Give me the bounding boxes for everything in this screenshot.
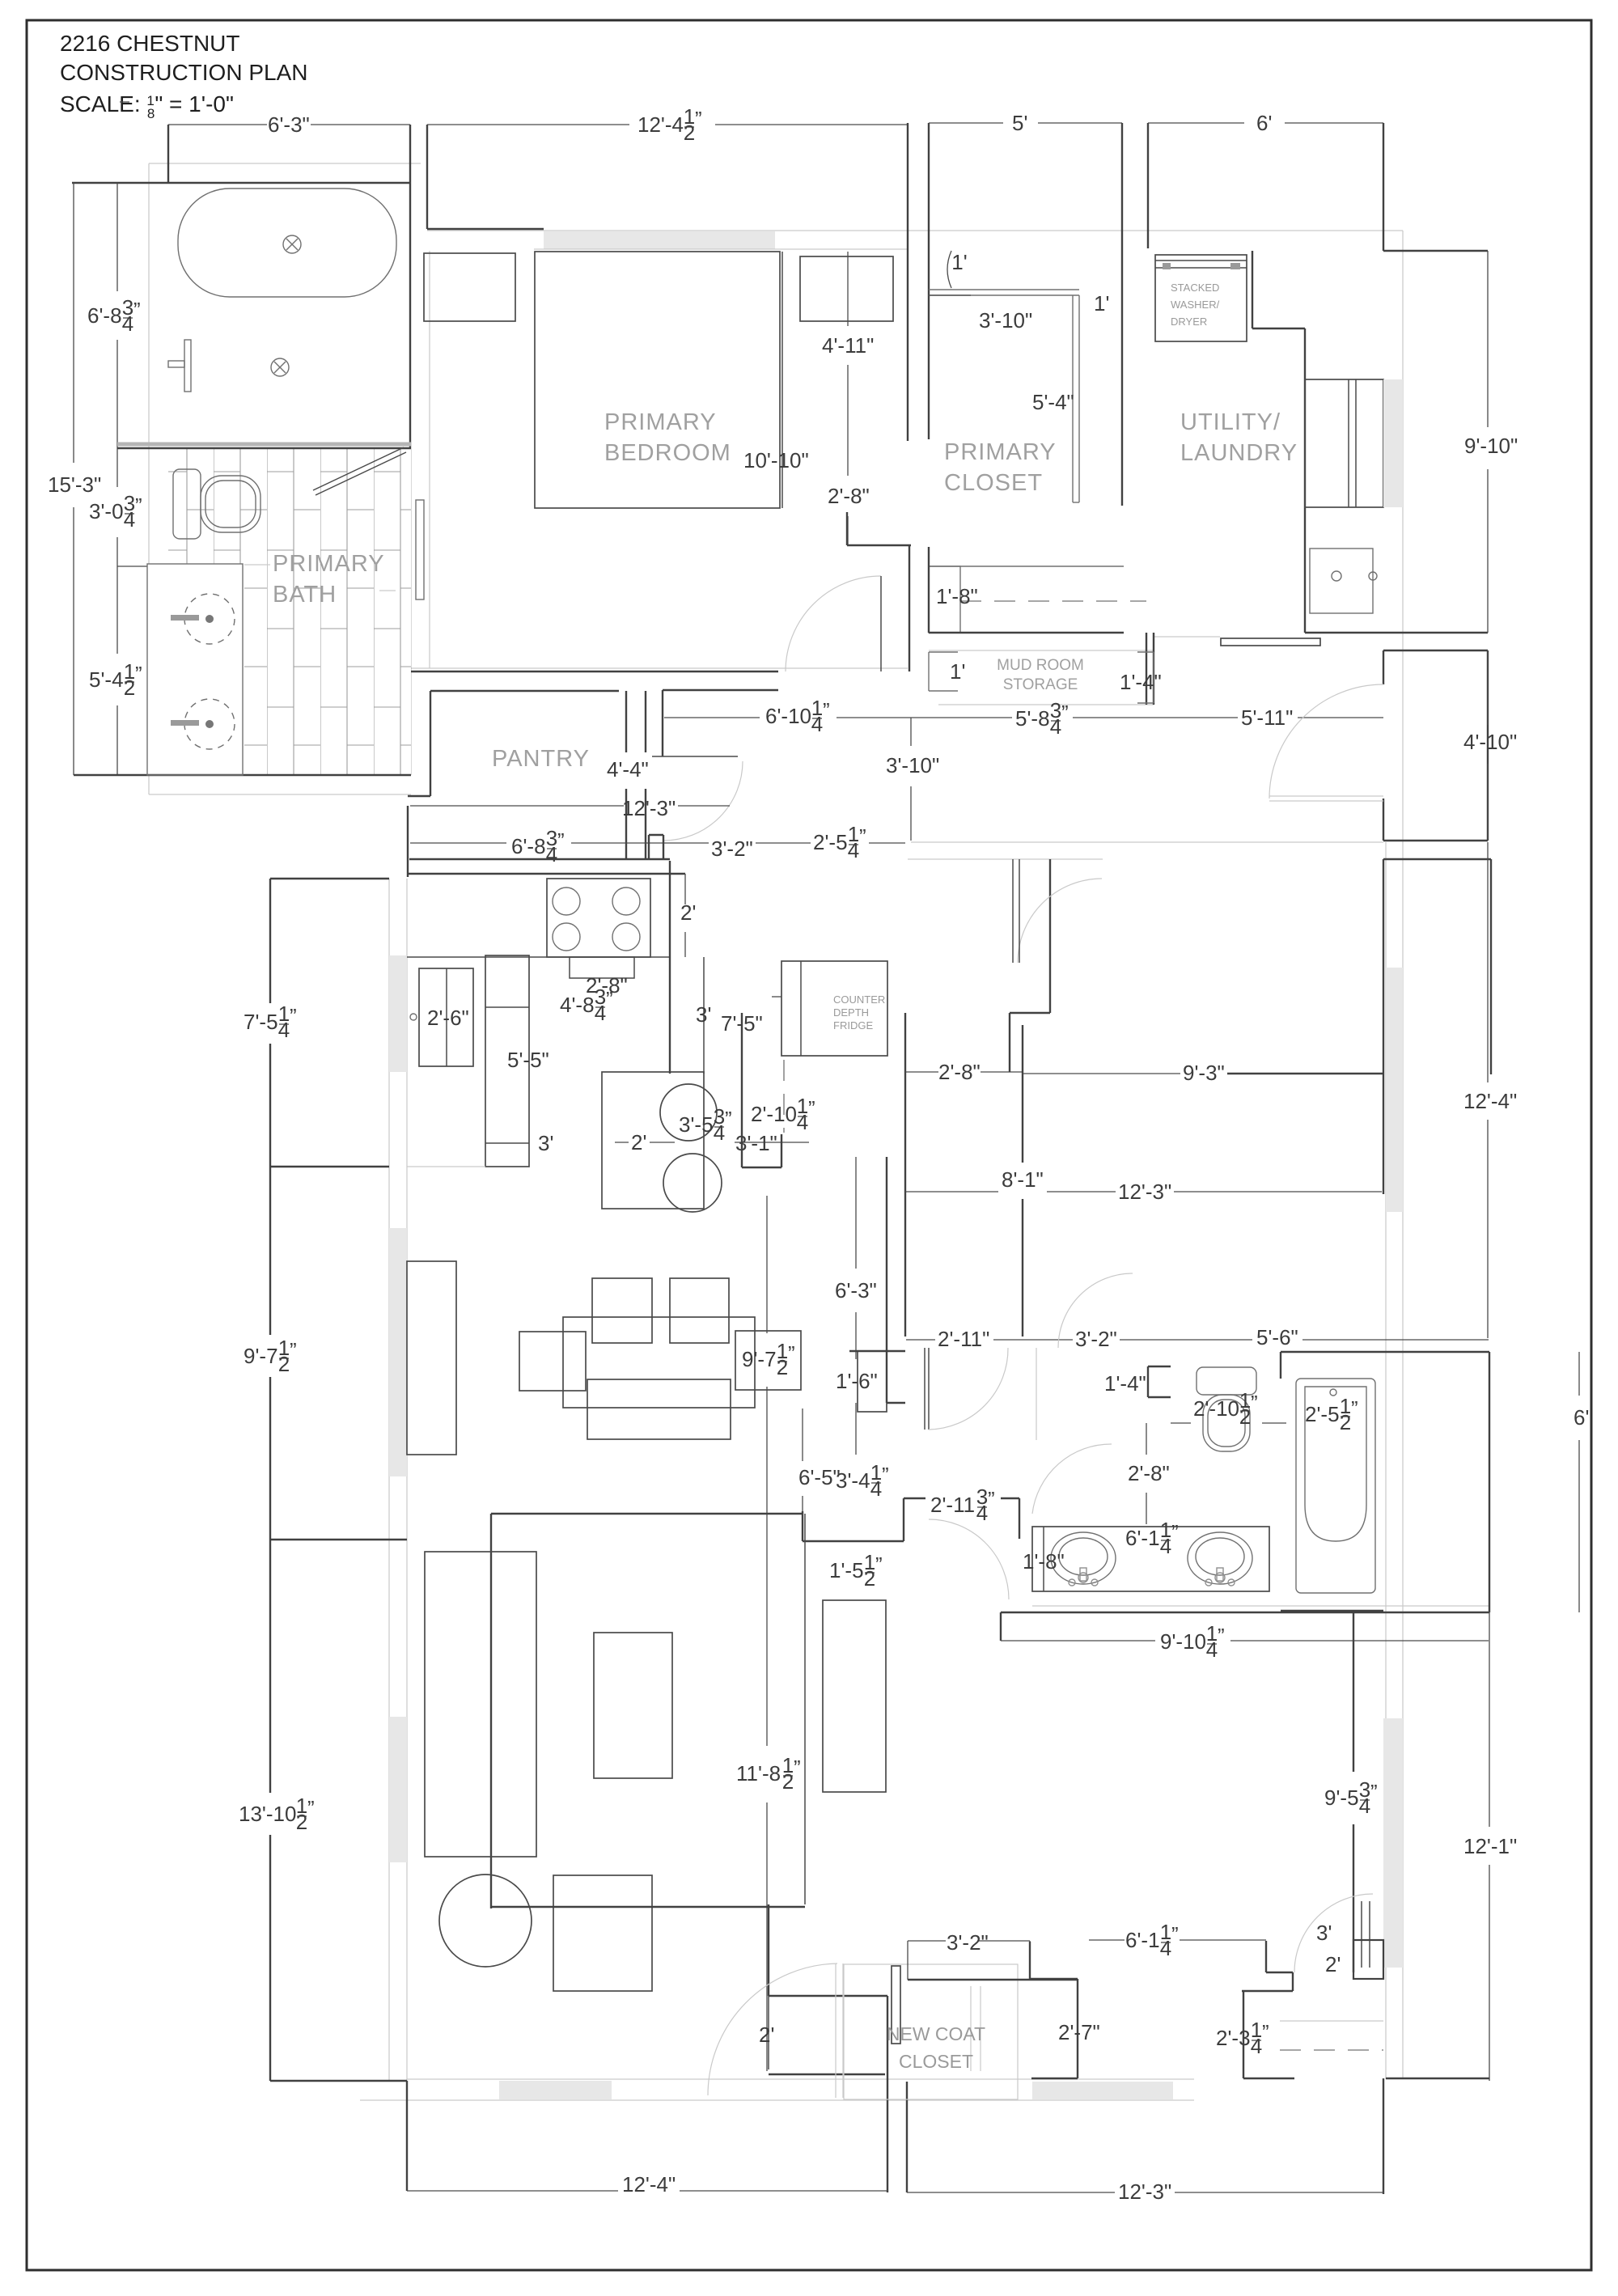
utility cabinet gray [1383, 379, 1403, 507]
wall entry closet w [887, 1996, 888, 2192]
dim 13-10 wall [269, 1540, 271, 1793]
wall bath south [74, 774, 411, 776]
dim line 4'-10 [1487, 650, 1489, 725]
svg-text:5'-5": 5'-5" [507, 1048, 549, 1072]
coat closet door leaf [892, 1966, 900, 2044]
fridge [781, 961, 887, 1056]
wall entry south [769, 1995, 887, 1997]
wall bed2 closet jamb [1265, 1941, 1267, 1972]
sofa side table right [735, 1331, 801, 1390]
wall stair north [1383, 250, 1488, 252]
wall den south jog [803, 1540, 904, 1542]
svg-text:1'-6": 1'-6" [836, 1369, 878, 1393]
wall bath2 east [1489, 1352, 1490, 1612]
bedroom door leaf [880, 576, 882, 671]
wall dining west [269, 879, 271, 1003]
wall den east [802, 1511, 803, 1541]
sink basin 1 dashed [184, 594, 235, 644]
svg-text:5'-8: 5'-8 [1015, 706, 1050, 731]
hall door jamb gray [1036, 1348, 1037, 1440]
wall bath west jog [167, 125, 169, 183]
svg-text:”: ” [1171, 1520, 1179, 1544]
hall door arc right [1032, 1444, 1112, 1514]
svg-text:”: ” [882, 1463, 889, 1487]
wall living west [269, 1167, 271, 1335]
bookcase lower left [425, 1552, 536, 1857]
wall den jamb [903, 1498, 904, 1541]
svg-text:2: 2 [278, 1352, 290, 1376]
svg-text:2': 2' [631, 1130, 646, 1154]
wall closet hall [909, 545, 910, 671]
toilet2 tank [1197, 1367, 1256, 1395]
wall bath2 west jog [1280, 1352, 1281, 1379]
sink2a [1051, 1532, 1116, 1584]
towel bar [184, 340, 191, 392]
svg-text:”: ” [606, 987, 613, 1011]
wall bedroom south-east [847, 544, 911, 546]
svg-text:9'-5: 9'-5 [1324, 1786, 1359, 1810]
hall door south arc [929, 1348, 1008, 1430]
svg-text:STORAGE: STORAGE [1003, 676, 1078, 693]
svg-text:15'-3": 15'-3" [48, 472, 101, 497]
svg-text:3'-5: 3'-5 [679, 1112, 714, 1137]
wall stair room [1383, 650, 1488, 651]
bookcase dining [407, 1261, 456, 1455]
svg-text:12'-4: 12'-4 [637, 112, 684, 137]
gray left window band 2 [389, 1228, 407, 1476]
wall kitchen pass east [904, 1013, 906, 1337]
svg-text:”: ” [725, 1107, 732, 1131]
svg-text:BEDROOM: BEDROOM [604, 440, 731, 466]
svg-text:3'-0: 3'-0 [89, 499, 124, 523]
wall bath2 sw tick [1000, 1612, 1002, 1641]
wall pantry east pair [625, 691, 627, 752]
svg-text:12'-4": 12'-4" [622, 2172, 676, 2196]
svg-text:2: 2 [777, 1355, 788, 1379]
dim 2'-6 ticks [772, 996, 781, 998]
svg-text:PRIMARY: PRIMARY [944, 439, 1057, 465]
wall bed2 closet west [1243, 1991, 1244, 2078]
entry interior door leaf [768, 1996, 769, 2069]
vanity bath2 [1032, 1527, 1269, 1591]
svg-text:”: ” [290, 1338, 297, 1362]
svg-text:1': 1' [950, 659, 965, 684]
gray right exterior wall lines [1385, 842, 1387, 2079]
gray existing wall band over bedroom window [544, 231, 775, 249]
svg-text:4'-11": 4'-11" [822, 333, 874, 358]
wall bedroom west [426, 125, 428, 229]
dim line 12'-3 bottom [907, 2192, 1115, 2193]
dim line 12'-4 bottom [407, 2190, 618, 2192]
svg-text:”: ” [135, 494, 142, 518]
wall bed2 closet area north [1281, 1610, 1383, 1612]
closet gray box [844, 1964, 1018, 2099]
wall bath2 south [1001, 1612, 1489, 1613]
toilet primary tank [173, 469, 201, 539]
pantry door arc [663, 761, 743, 841]
sink2b [1188, 1532, 1252, 1584]
dim line hall bottom [906, 1339, 935, 1341]
utility cabinet [1305, 379, 1383, 507]
svg-text:”: ” [290, 1004, 297, 1028]
wall bottom left vert [406, 2081, 408, 2191]
gray left window band 3 [389, 1717, 407, 1862]
door jamb kitchen pass [648, 835, 650, 859]
burner 2 [612, 887, 640, 915]
svg-text:PANTRY: PANTRY [492, 746, 590, 772]
svg-text:”: ” [823, 698, 830, 722]
svg-text:6'-10: 6'-10 [765, 704, 811, 728]
vanity divider [1043, 1527, 1044, 1591]
towel bar bedroom side [416, 500, 424, 599]
svg-text:6'-3": 6'-3" [268, 112, 310, 137]
utility sink [1310, 549, 1373, 613]
svg-text:6'-8: 6'-8 [87, 303, 122, 328]
sofa cushion 2 [670, 1278, 729, 1343]
svg-text:4'-10": 4'-10" [1463, 730, 1517, 754]
shower head symbol 2 [271, 358, 289, 376]
svg-text:”: ” [1171, 1922, 1179, 1947]
burner 1 [553, 887, 580, 915]
dim line 3'-10 vert [910, 718, 912, 746]
bar stool 1 [660, 1084, 717, 1141]
svg-text:”: ” [1251, 1391, 1258, 1415]
dim line 3'-10 closet [929, 294, 971, 296]
svg-text:”: ” [1061, 701, 1069, 725]
bath door leaf diagonal [313, 447, 404, 490]
gray bottom exterior wall lines [407, 2078, 1194, 2080]
bed2 closet door leaf [1361, 1901, 1362, 1968]
svg-text:CLOSET: CLOSET [899, 2051, 973, 2072]
closet rod dashed [960, 600, 1146, 602]
svg-text:3'-10": 3'-10" [886, 753, 939, 777]
gray right window band 1 [1386, 968, 1403, 1212]
wall utility east top [1383, 123, 1384, 251]
svg-text:CLOSET: CLOSET [944, 470, 1043, 496]
svg-text:3': 3' [1316, 1921, 1332, 1945]
svg-text:5': 5' [1012, 111, 1027, 135]
svg-text:12'-1": 12'-1" [1463, 1834, 1517, 1858]
wall rm north [1383, 858, 1491, 860]
svg-text:BATH: BATH [273, 582, 337, 608]
wall hall north jog [1010, 1012, 1050, 1014]
nightstand left [424, 253, 515, 321]
svg-text:2': 2' [680, 900, 696, 925]
dim line 2'-10 1/2 [1171, 1422, 1191, 1424]
wall dining south [270, 1166, 389, 1167]
svg-text:2'-8": 2'-8" [938, 1060, 981, 1084]
tub2 inner [1305, 1387, 1366, 1541]
svg-text:12'-3": 12'-3" [622, 796, 676, 820]
svg-text:4: 4 [124, 507, 135, 532]
wall bed2 west [886, 1157, 887, 1403]
bed [535, 252, 780, 508]
wall den divider [490, 1514, 492, 1908]
svg-text:3'-2": 3'-2" [711, 837, 753, 861]
wall bottom left [270, 2080, 407, 2082]
svg-text:2: 2 [124, 676, 135, 700]
wall bath mid [117, 447, 411, 449]
wall hall jog [742, 1167, 781, 1168]
stove [547, 879, 650, 957]
wall dining north [270, 878, 389, 879]
svg-text:1': 1' [951, 250, 967, 274]
svg-text:12'-3": 12'-3" [1118, 2180, 1171, 2204]
svg-text:12'-3": 12'-3" [1118, 1180, 1171, 1204]
gray bottom window band right [1032, 2082, 1173, 2099]
dim line 5'-4 1/2 [116, 566, 118, 654]
svg-text:4: 4 [714, 1120, 725, 1145]
hall door arc [1018, 879, 1102, 963]
svg-text:4: 4 [976, 1501, 988, 1525]
gray utility floor line [1154, 636, 1220, 638]
wall corridor right [663, 689, 778, 691]
sink basin 2 dashed [184, 699, 235, 749]
gray left exterior wall lines [388, 879, 390, 2081]
sofa seat [587, 1379, 731, 1439]
gray hall second line [908, 858, 1103, 860]
svg-text:4: 4 [122, 311, 133, 336]
bar stool 2 [663, 1154, 722, 1212]
wall pass 2'-8 top [905, 1071, 938, 1073]
dim line 9'-10 right [1487, 251, 1489, 427]
dim tick bath [117, 566, 167, 567]
svg-text:3'-4: 3'-4 [836, 1468, 870, 1493]
wall closet west [928, 123, 930, 439]
wall bath2 north [1281, 1351, 1489, 1353]
label leader lines bath [244, 564, 270, 566]
svg-text:12'-4": 12'-4" [1463, 1089, 1517, 1113]
svg-text:7'-5: 7'-5 [244, 1010, 278, 1034]
wardrobe bed2 [823, 1600, 886, 1792]
wall coat closet [1029, 1942, 1031, 1979]
gray existing wall outline top-left [149, 163, 421, 164]
washer dryer box [1155, 255, 1247, 341]
wall bath shower curb gray [117, 443, 411, 447]
svg-text:6': 6' [1574, 1405, 1589, 1430]
sofa cushion 1 [592, 1278, 652, 1343]
hall door arc mid [929, 1519, 1009, 1599]
svg-text:4: 4 [1160, 1534, 1171, 1558]
svg-text:”: ” [557, 828, 565, 853]
wall bedroom door jamb [846, 512, 848, 545]
svg-text:2'-8": 2'-8" [828, 484, 870, 508]
svg-text:4: 4 [595, 1001, 606, 1025]
tv console [594, 1633, 672, 1778]
svg-text:”: ” [1370, 1780, 1378, 1804]
svg-text:STACKED: STACKED [1171, 282, 1219, 294]
counter front line [407, 956, 670, 958]
bedroom door arc [786, 576, 881, 671]
svg-text:4: 4 [546, 842, 557, 866]
svg-text:2: 2 [864, 1566, 875, 1591]
dim line 12'-4 1/2 top [427, 124, 629, 125]
wall closet south [929, 632, 1124, 633]
dim line 2ft [684, 874, 686, 904]
svg-text:4: 4 [797, 1110, 808, 1134]
svg-text:2': 2' [1325, 1952, 1341, 1976]
dim line y887 [664, 717, 760, 718]
cabinet 2'-6 [419, 968, 473, 1066]
gray bottom window band left [499, 2081, 612, 2099]
counter 1'-6 [858, 1351, 887, 1412]
bed2 closet door arc [1294, 1894, 1373, 1972]
dim line 15'-3 [73, 183, 74, 463]
peninsula counter [602, 1072, 704, 1209]
dim line 3'-2 entry [908, 1940, 946, 1942]
wall bedroom north [427, 228, 544, 230]
wall living sw [270, 1539, 407, 1540]
bed2 closet nub [1353, 1940, 1383, 1979]
gray left window band 1 [389, 955, 407, 1072]
svg-text:5'-6": 5'-6" [1256, 1325, 1298, 1349]
wall closet east [1121, 123, 1123, 506]
dim line 12'-4 right [1487, 842, 1489, 1082]
dim line 12'-1 [1489, 1611, 1490, 1827]
svg-text:2: 2 [782, 1769, 794, 1794]
svg-text:6'-3": 6'-3" [835, 1278, 877, 1303]
wall bed2 south seg [1243, 2078, 1294, 2079]
svg-text:1'-4": 1'-4" [1104, 1371, 1146, 1396]
wall hall jog tick [781, 1134, 782, 1167]
gray bath2 floor line [1032, 1605, 1489, 1607]
svg-text:”: ” [695, 107, 702, 131]
svg-text:2'-11: 2'-11 [930, 1493, 975, 1517]
svg-text:2: 2 [1239, 1404, 1251, 1429]
gray corridor line [411, 667, 908, 669]
front door arc [708, 1963, 837, 2095]
svg-text:5'-11": 5'-11" [1241, 705, 1293, 730]
svg-text:3'-2": 3'-2" [947, 1930, 989, 1955]
nightstand right [800, 256, 893, 321]
tub2 drain [1330, 1389, 1336, 1396]
svg-text:FRIDGE: FRIDGE [833, 1019, 873, 1032]
closet shelf lines [929, 289, 1079, 290]
svg-text:2: 2 [684, 121, 695, 145]
svg-text:9'-7: 9'-7 [742, 1347, 777, 1371]
svg-text:3': 3' [538, 1131, 553, 1155]
wall kitchen north 1 [409, 858, 670, 860]
svg-text:2: 2 [296, 1810, 307, 1834]
dim line 2'-8 bath2 [1146, 1423, 1147, 1455]
svg-text:MUD ROOM: MUD ROOM [997, 657, 1084, 674]
svg-text:NEW COAT: NEW COAT [887, 2023, 985, 2044]
hall door south leaf [924, 1348, 925, 1430]
dim line 9'-3 [1023, 1073, 1180, 1074]
sofa side table left [519, 1332, 586, 1391]
svg-text:4: 4 [1251, 2034, 1262, 2058]
wall rm east [1490, 859, 1492, 1074]
svg-text:4: 4 [870, 1476, 882, 1501]
wall y1327 east [1227, 1073, 1383, 1074]
svg-text:”: ” [859, 824, 866, 849]
side table square [553, 1875, 652, 1991]
dim line 2'-8 bedroom [847, 457, 849, 476]
svg-text:9'-10": 9'-10" [1464, 434, 1518, 458]
svg-text:1': 1' [1094, 291, 1109, 316]
wall corridor south [411, 671, 778, 672]
svg-text:DEPTH: DEPTH [833, 1006, 869, 1019]
wall bath north [72, 182, 410, 184]
wall y1670 [849, 1350, 905, 1352]
dim line 6'-3 vert [855, 1157, 857, 1269]
svg-text:UTILITY/: UTILITY/ [1180, 409, 1281, 435]
dim line 12'-3 kitchen [410, 805, 624, 807]
svg-text:”: ” [988, 1487, 995, 1511]
svg-text:6': 6' [1256, 111, 1272, 135]
svg-text:PRIMARY: PRIMARY [273, 551, 385, 577]
svg-text:4: 4 [1050, 714, 1061, 739]
wall entry closet e [906, 2082, 908, 2192]
svg-text:5'-4: 5'-4 [89, 667, 124, 692]
svg-text:1'-5: 1'-5 [829, 1558, 864, 1582]
wall hall east [1022, 1025, 1023, 1163]
wall counter east [669, 861, 671, 1074]
desk chair [439, 1875, 532, 1967]
bed inner line [781, 252, 783, 508]
svg-text:2: 2 [1340, 1410, 1351, 1434]
gray mudroom bench lines [929, 650, 1154, 651]
svg-text:3'-2": 3'-2" [1075, 1327, 1117, 1351]
front door leaf [835, 1963, 837, 2098]
svg-text:WASHER/: WASHER/ [1171, 299, 1220, 311]
hall door leaf [1012, 859, 1014, 963]
dim line 6'-1 entry [1089, 1939, 1125, 1941]
wall kitchen north 2 [407, 873, 685, 875]
gray right window band 2 [1383, 1718, 1403, 1968]
svg-text:9'-10: 9'-10 [1160, 1629, 1206, 1654]
svg-text:8'-1": 8'-1" [1002, 1167, 1044, 1192]
wall utility inner 2 [1252, 328, 1305, 329]
faucet 2 [171, 720, 199, 726]
svg-text:”: ” [1351, 1396, 1358, 1421]
svg-text:1'-4": 1'-4" [1120, 670, 1162, 694]
mudroom left bracket [928, 652, 930, 691]
svg-text:6'-5": 6'-5" [798, 1465, 841, 1489]
wall closet west lower [928, 547, 930, 633]
svg-text:”: ” [307, 1796, 315, 1820]
closet bench rect [929, 566, 960, 633]
pantry door leaf [652, 756, 738, 757]
closet bench line [929, 566, 1124, 567]
faucet2a [1069, 1568, 1098, 1586]
gray hall top line [911, 841, 1383, 843]
svg-text:2'-10: 2'-10 [1193, 1396, 1239, 1421]
dim line 11'-8 1/2 [766, 1540, 768, 1746]
svg-text:LAUNDRY: LAUNDRY [1180, 440, 1298, 466]
gray dining south line [407, 1166, 485, 1167]
wall bedroom/closet [907, 123, 909, 441]
svg-text:”: ” [794, 1756, 801, 1780]
svg-text:2'-10: 2'-10 [751, 1102, 797, 1126]
wall hall west upper [741, 1013, 743, 1167]
dim line 6' right [1578, 1352, 1580, 1396]
burner 3 [553, 923, 580, 951]
vanity outline primary [147, 564, 243, 775]
svg-text:4: 4 [811, 712, 823, 736]
svg-text:1'-8": 1'-8" [1023, 1549, 1065, 1574]
svg-text:3'-10": 3'-10" [979, 308, 1032, 333]
fridge dashed side [783, 1060, 785, 1133]
bathtub primary [178, 189, 396, 297]
svg-text:4: 4 [1206, 1637, 1218, 1662]
stove lower box [570, 957, 634, 978]
dim line 5' top [929, 122, 1003, 124]
wall entry jamb [768, 1904, 769, 1996]
wall utility inner 1 [1252, 251, 1253, 328]
svg-text:”: ” [875, 1553, 883, 1577]
faucet2b [1205, 1568, 1235, 1586]
